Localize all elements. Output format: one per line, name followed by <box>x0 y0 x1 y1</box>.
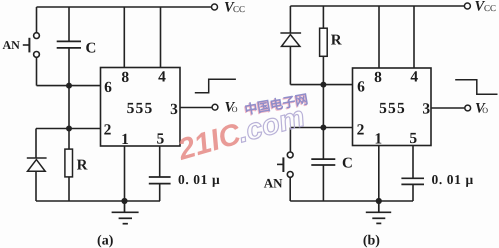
wire: pin 6 line (a) <box>37 85 101 87</box>
wire: pin 1 lead (a) <box>124 146 126 201</box>
wire: pin 3 output lead (a) <box>180 107 212 109</box>
svg-text:8: 8 <box>121 69 129 86</box>
terminal Vcc (a) <box>212 4 218 10</box>
wire: pin 3 output lead (b) <box>431 107 464 109</box>
wire: Vcc rail (a) <box>37 6 212 8</box>
wire: pin 4 drop (a) <box>160 7 162 68</box>
svg-text:2: 2 <box>104 122 112 139</box>
svg-text:6: 6 <box>104 79 112 96</box>
svg-text:4: 4 <box>410 69 418 86</box>
svg-text:555: 555 <box>127 100 154 117</box>
svg-text:CC: CC <box>484 3 496 13</box>
pushbutton AN (a) <box>23 33 40 58</box>
terminal Vo (b) <box>465 105 471 111</box>
wire: ground line (b) <box>290 200 413 202</box>
svg-text:C: C <box>342 156 353 172</box>
wire: diode top lead (b) <box>289 6 291 33</box>
wire: node link 6-2 (b) <box>322 85 324 128</box>
junction: ground node (a) <box>122 199 127 204</box>
junction: pin2 node (b) <box>321 125 325 129</box>
junction: ground node (b) <box>377 199 382 204</box>
junction: pin2 node (a) <box>67 126 71 130</box>
svg-text:O: O <box>482 106 488 115</box>
svg-text:R: R <box>77 158 88 174</box>
svg-text:1: 1 <box>121 131 129 148</box>
waveform: falling step (b) <box>455 80 497 95</box>
svg-text:CC: CC <box>233 4 245 14</box>
IC 555 U1 (a) <box>101 68 181 147</box>
svg-text:O: O <box>232 105 238 114</box>
wire: ground line (a) <box>36 200 160 202</box>
wire: pin 6 line (b) <box>290 84 352 86</box>
svg-text:(a): (a) <box>97 234 114 248</box>
wire: button bottom lead (a) <box>36 57 38 85</box>
svg-text:3: 3 <box>170 101 178 118</box>
terminal Vo (a) <box>212 104 218 110</box>
svg-text:1: 1 <box>374 131 382 148</box>
svg-text:C: C <box>86 41 97 57</box>
svg-text:2: 2 <box>357 122 365 139</box>
wire: diode top lead (a) <box>35 129 37 159</box>
wire: pin 8 drop (b) <box>378 6 380 68</box>
capacitor 0.01u (a) <box>149 177 171 201</box>
wire: pin 4 drop (b) <box>413 6 415 68</box>
wire: pin 8 drop (a) <box>123 7 125 68</box>
svg-text:3: 3 <box>422 101 430 118</box>
svg-text:(b): (b) <box>363 234 380 248</box>
diode VD (a) <box>27 158 47 201</box>
wire: pin 5 lead (b) <box>412 146 414 179</box>
wire: Vcc rail (b) <box>290 5 464 7</box>
svg-text:R: R <box>331 33 342 49</box>
wire: button top lead (b) <box>289 128 291 153</box>
svg-text:8: 8 <box>374 69 382 86</box>
svg-text:5: 5 <box>157 131 165 148</box>
diode VD (b) <box>280 33 301 85</box>
svg-text:0. 01 μ: 0. 01 μ <box>432 172 474 187</box>
svg-text:AN: AN <box>264 176 283 191</box>
wire: pin 5 lead (a) <box>159 146 161 177</box>
waveform: rising step (a) <box>195 79 236 93</box>
svg-text:4: 4 <box>158 69 166 86</box>
terminal Vcc (b) <box>464 3 470 9</box>
resistor R (b) <box>320 6 328 85</box>
capacitor 0.01u (b) <box>401 178 424 201</box>
capacitor C (b) <box>311 128 335 202</box>
wire: pin 1 lead (b) <box>378 146 380 202</box>
resistor R (a) <box>65 129 73 202</box>
pushbutton AN (b) <box>277 152 293 177</box>
svg-text:5: 5 <box>409 130 417 147</box>
svg-text:555: 555 <box>379 100 406 117</box>
ground symbol (b) <box>366 201 391 223</box>
ground symbol (a) <box>112 201 139 224</box>
svg-text:0. 01 μ: 0. 01 μ <box>178 172 220 187</box>
svg-text:6: 6 <box>357 79 365 96</box>
wire: button bottom lead (b) <box>289 177 291 201</box>
svg-text:21IC: 21IC <box>173 117 245 167</box>
wire: button top lead (a) <box>36 7 38 33</box>
junction: cap/pin6 node (a) <box>67 83 71 87</box>
capacitor C (a) <box>57 7 81 86</box>
wire: pin 2 line (a) <box>36 128 101 130</box>
IC 555 U2 (b) <box>353 68 432 146</box>
svg-text:AN: AN <box>3 38 21 52</box>
junction: pin6 node (b) <box>321 82 325 86</box>
wire: pin 2 line (b) <box>290 127 352 129</box>
wire: node link 6-2 (a) <box>68 86 70 129</box>
